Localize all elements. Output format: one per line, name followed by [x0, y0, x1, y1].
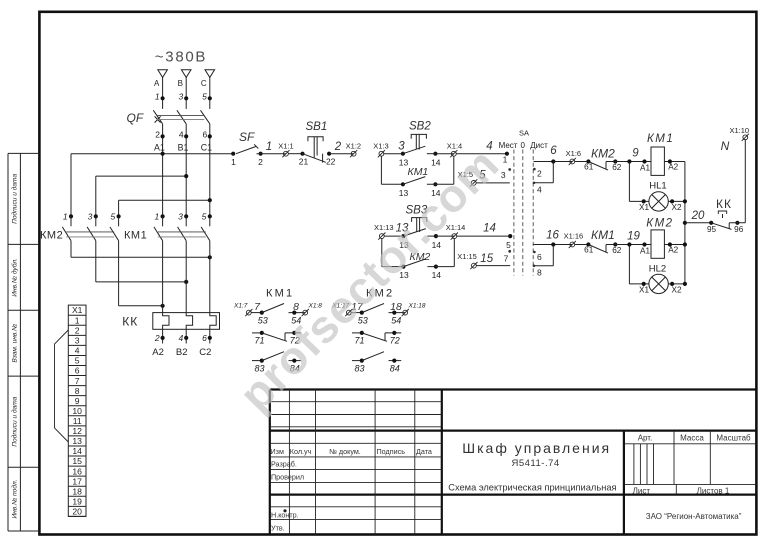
svg-text:61: 61: [584, 246, 594, 255]
svg-text:13: 13: [399, 188, 409, 198]
wire X1:16 to KM1 contact: [575, 244, 589, 246]
contactor KM1 main contacts: [124, 212, 212, 242]
pushbutton SB2 (NO): [399, 121, 441, 168]
svg-text:X2: X2: [671, 203, 681, 212]
terminal flag X1:2: [346, 142, 361, 158]
node wire 4: [486, 141, 492, 153]
wire SB2 to X1:4: [435, 153, 453, 155]
svg-text:11: 11: [73, 416, 82, 426]
circuit breaker QF: [127, 110, 213, 216]
svg-text:Лист: Лист: [633, 487, 651, 496]
svg-text:Утв.: Утв.: [271, 524, 285, 533]
svg-text:7: 7: [75, 376, 80, 386]
title block document name: [448, 440, 616, 493]
svg-text:2: 2: [537, 169, 542, 179]
wire SB1 to X1:2: [329, 153, 354, 155]
title block right labels: [633, 434, 751, 521]
svg-text:КК: КК: [122, 314, 138, 328]
coil KM1: [640, 133, 674, 175]
svg-text:C2: C2: [199, 347, 211, 358]
svg-text:4: 4: [486, 141, 492, 153]
wire X1:3 to SB2: [384, 153, 403, 155]
svg-text:SB2: SB2: [409, 121, 431, 133]
wire phase A input: [162, 77, 164, 109]
switch SF: [231, 130, 263, 167]
svg-text:КМ1: КМ1: [124, 230, 147, 242]
svg-text:КМ2: КМ2: [591, 147, 615, 161]
wire X1:15 to SA-7: [457, 252, 510, 269]
svg-text:B: B: [178, 79, 183, 88]
svg-text:18: 18: [72, 486, 82, 496]
wire node9 to HL1: [629, 162, 649, 212]
wire rail to KK: [685, 222, 711, 224]
phase B label: [178, 79, 183, 88]
svg-text:5: 5: [202, 92, 207, 102]
svg-text:КМ2: КМ2: [646, 217, 673, 229]
svg-text:14: 14: [432, 270, 442, 280]
wire node19 to HL2: [629, 245, 649, 295]
svg-text:5: 5: [75, 356, 80, 366]
svg-text:84: 84: [390, 364, 400, 374]
svg-text:X1:2: X1:2: [346, 142, 361, 151]
svg-text:1: 1: [503, 155, 508, 165]
svg-text:1: 1: [63, 212, 68, 222]
svg-text:5: 5: [202, 212, 207, 222]
phase C input arrow: [205, 70, 215, 78]
svg-text:~380В: ~380В: [155, 49, 207, 66]
selector SA position labels: [499, 141, 549, 150]
wire KM1 coil A2 to rail: [664, 159, 685, 171]
frame margin label Взам. инв.№: [12, 324, 19, 363]
wire KM2 coil A2 to rail: [664, 242, 685, 254]
svg-text:Дист: Дист: [530, 141, 548, 150]
svg-text:A2: A2: [668, 163, 678, 172]
svg-text:Инв.№ дубл.: Инв.№ дубл.: [11, 258, 19, 297]
svg-text:Масса: Масса: [680, 434, 704, 443]
contact KM1 NC (61-62): [584, 228, 622, 255]
svg-text:1: 1: [266, 141, 272, 153]
node phase A terminal 1: [155, 92, 165, 102]
contact КМ2 53-54 (NO): [331, 301, 426, 326]
wire HL1 to rail: [668, 199, 685, 212]
svg-text:HL1: HL1: [649, 181, 666, 192]
svg-text:X1:7: X1:7: [233, 303, 248, 310]
lamp HL2: [649, 264, 669, 294]
svg-text:Дата: Дата: [416, 447, 432, 456]
wire KM2 pole5 to A: [119, 241, 165, 308]
svg-text:Масштаб: Масштаб: [716, 434, 751, 443]
svg-text:3: 3: [178, 92, 183, 102]
terminal flag X1:13: [374, 223, 394, 240]
contact KM2 NC (61-62): [584, 147, 622, 173]
wire KM2-62 to node 9: [606, 148, 651, 164]
contact KM1 holding (13-14): [381, 156, 453, 197]
svg-text:17: 17: [72, 476, 82, 486]
svg-text:6: 6: [75, 366, 80, 376]
svg-text:A: A: [154, 79, 160, 88]
contact SA 6-8 (Dist row2): [533, 230, 573, 278]
svg-text:9: 9: [632, 148, 639, 160]
svg-text:КМ1: КМ1: [408, 166, 429, 178]
svg-text:Взам. инв.№: Взам. инв.№: [12, 324, 19, 363]
svg-text:14: 14: [72, 446, 82, 456]
pushbutton SB1 (NC): [299, 121, 336, 166]
wire KM1 poles to KK: [163, 241, 210, 313]
svg-text:20: 20: [691, 210, 705, 222]
svg-text:61: 61: [584, 163, 594, 172]
svg-text:14: 14: [483, 223, 496, 235]
svg-text:72: 72: [390, 336, 400, 346]
svg-text:2: 2: [334, 141, 342, 153]
title block grid: [270, 390, 757, 535]
svg-text:SF: SF: [239, 130, 255, 144]
svg-text:ЗАО “Регион-Автоматика”: ЗАО “Регион-Автоматика”: [646, 512, 742, 521]
svg-text:X1: X1: [72, 305, 83, 315]
terminal block X1: [68, 305, 86, 516]
svg-text:Мест: Мест: [499, 141, 518, 150]
wire KM2 pole feeders: [71, 154, 119, 217]
svg-text:1: 1: [75, 315, 80, 325]
wire tap phase C: [119, 198, 212, 202]
svg-text:5: 5: [110, 212, 115, 222]
contact КМ1 53-54 (NO): [233, 301, 322, 326]
frame margin label Подписи и дата: [11, 396, 19, 446]
svg-text:8: 8: [75, 386, 80, 396]
wire KM1-62 to node 19: [606, 230, 651, 246]
contact KK thermal (95-96): [707, 197, 744, 234]
svg-text:X1:16: X1:16: [564, 232, 584, 241]
terminal block X1 cable bracket: [55, 330, 69, 442]
terminal flag X1:10: [729, 126, 749, 141]
frame margin label Инв.№ дубл.: [11, 258, 19, 297]
svg-text:X1:3: X1:3: [373, 142, 388, 151]
frame margin label Инв.№ подл.: [11, 479, 19, 518]
net N label: [721, 139, 730, 153]
svg-text:Арт.: Арт.: [638, 434, 653, 443]
svg-text:7: 7: [504, 254, 509, 264]
svg-text:2: 2: [75, 325, 80, 335]
wire phase C input: [209, 77, 211, 109]
contact KM2 holding (13-14): [382, 239, 455, 280]
svg-text:HL2: HL2: [649, 264, 666, 275]
wire SF to X1:1: [257, 153, 286, 155]
svg-text:0: 0: [520, 141, 525, 150]
svg-text:1: 1: [231, 157, 236, 167]
svg-text:3: 3: [75, 336, 80, 346]
svg-text:C1: C1: [201, 143, 212, 153]
phase C label: [201, 79, 207, 88]
svg-text:КМ1: КМ1: [591, 228, 615, 242]
svg-text:18: 18: [390, 301, 402, 313]
contact КМ1 83-84 (NO): [252, 352, 301, 374]
svg-text:КМ1: КМ1: [647, 133, 674, 145]
svg-text:SA: SA: [519, 128, 529, 137]
svg-text:КМ2: КМ2: [40, 230, 63, 242]
title block stray mark: [283, 509, 286, 512]
svg-text:Я5411-.74: Я5411-.74: [512, 458, 560, 469]
svg-text:15: 15: [480, 253, 493, 265]
svg-text:54: 54: [391, 315, 401, 325]
wire SB3 to X1:14: [436, 235, 454, 237]
svg-text:A1: A1: [154, 143, 165, 153]
svg-text:Подписи и дата: Подписи и дата: [11, 174, 19, 224]
svg-text:КК: КК: [716, 197, 732, 211]
wire HL2 to rail: [668, 282, 685, 295]
svg-text:X2: X2: [671, 285, 681, 294]
frame margin label Подписи и дата: [11, 174, 19, 224]
svg-text:Разраб.: Разраб.: [271, 460, 297, 469]
wire tap phase B: [96, 174, 188, 178]
selector SA label: [519, 128, 529, 137]
node wire 1: [266, 141, 272, 153]
svg-text:X1:10: X1:10: [729, 126, 749, 135]
svg-text:B1: B1: [178, 143, 189, 153]
svg-text:14: 14: [431, 157, 441, 167]
terminal flag X1:6: [566, 149, 581, 165]
svg-text:A2: A2: [152, 347, 164, 358]
lamp HL1: [649, 181, 668, 211]
thermal relay KK heaters: [122, 313, 219, 358]
phase B input arrow: [181, 70, 191, 78]
svg-text:10: 10: [72, 406, 82, 416]
svg-text:2: 2: [258, 157, 263, 167]
svg-text:62: 62: [612, 246, 622, 255]
node wire 13: [396, 223, 409, 235]
node wire 3: [398, 141, 405, 153]
wire X1:5 to SA-3: [458, 169, 510, 186]
title block row labels: [271, 460, 304, 533]
svg-text:9: 9: [75, 396, 80, 406]
svg-text:Шкаф управления: Шкаф управления: [462, 440, 611, 456]
selector SA position lines: [514, 150, 533, 276]
svg-text:A2: A2: [668, 246, 678, 255]
svg-text:Кол.уч: Кол.уч: [290, 447, 312, 456]
phase A input arrow: [158, 70, 168, 78]
svg-text:B2: B2: [176, 347, 188, 358]
contact SA 5-7 (Mest row2): [504, 234, 513, 264]
terminal flag X1:14: [446, 223, 466, 240]
svg-text:Проверил: Проверил: [271, 472, 304, 481]
svg-text:A1: A1: [640, 163, 650, 172]
svg-text:53: 53: [258, 315, 268, 325]
svg-text:6: 6: [202, 333, 207, 343]
svg-text:1: 1: [155, 92, 160, 102]
svg-text:QF: QF: [127, 111, 144, 125]
svg-text:8: 8: [293, 301, 299, 313]
terminal flag X1:3: [373, 142, 388, 158]
svg-text:N: N: [721, 139, 730, 153]
wire KM2 pole3 to B: [96, 241, 188, 284]
svg-text:95: 95: [707, 225, 717, 234]
svg-text:A1: A1: [640, 246, 650, 255]
wire X1:6 to KM2 contact: [575, 161, 589, 163]
coil KM2: [640, 217, 674, 258]
wire phase B input: [185, 77, 187, 109]
svg-text:X1: X1: [639, 285, 649, 294]
svg-text:19: 19: [72, 496, 82, 506]
svg-text:4: 4: [179, 129, 184, 139]
contact SA 1-3 (Mest row1): [501, 152, 511, 181]
svg-text:Схема электрическая принципи: Схема электрическая принципиальная: [448, 483, 616, 493]
wire KM2 pole1 to C: [71, 241, 212, 260]
wire tap phase A / control: [71, 152, 233, 156]
terminal flag X1:4: [447, 142, 462, 158]
svg-text:X1:6: X1:6: [566, 149, 581, 158]
node wire 2: [334, 141, 342, 153]
svg-text:20: 20: [72, 507, 82, 517]
svg-text:SB1: SB1: [306, 121, 328, 133]
svg-text:6: 6: [550, 145, 557, 157]
svg-text:Подписи и дата: Подписи и дата: [11, 396, 19, 446]
svg-text:4: 4: [178, 333, 183, 343]
svg-text:15: 15: [72, 456, 82, 466]
svg-text:12: 12: [72, 426, 82, 436]
svg-text:8: 8: [537, 268, 542, 278]
svg-text:2: 2: [155, 129, 160, 139]
svg-text:22: 22: [326, 156, 336, 166]
svg-text:X1: X1: [639, 203, 649, 212]
svg-text:16: 16: [546, 230, 559, 242]
svg-text:19: 19: [627, 230, 640, 242]
svg-text:71: 71: [254, 336, 264, 346]
svg-text:6: 6: [202, 129, 207, 139]
svg-text:C: C: [201, 79, 207, 88]
contactor КМ2 aux label: [366, 288, 394, 300]
svg-text:16: 16: [72, 466, 82, 476]
svg-text:№ докум.: № докум.: [329, 447, 361, 456]
wire X1:1 to SB1: [288, 153, 302, 155]
svg-text:КМ1: КМ1: [266, 288, 294, 300]
svg-text:2: 2: [154, 333, 160, 343]
contactor KM2 main contacts: [40, 212, 121, 242]
svg-text:X1:1: X1:1: [278, 142, 293, 151]
svg-text:13: 13: [72, 436, 82, 446]
wire X1:13 to SB3: [384, 235, 403, 237]
contact КМ2 71-72 (NC): [352, 331, 401, 346]
terminal flag X1:1: [278, 142, 293, 158]
svg-text:1: 1: [154, 212, 159, 222]
node phase B terminal 3: [178, 92, 188, 102]
svg-text:3: 3: [88, 212, 93, 222]
watermark profsector.com: [229, 138, 509, 421]
svg-text:3: 3: [178, 212, 183, 222]
contact SA 2-4 (Dist row1): [533, 145, 573, 194]
svg-text:Подпись: Подпись: [377, 447, 406, 456]
wire X1:4 to SA: [456, 153, 507, 155]
svg-text:Изм: Изм: [271, 447, 284, 456]
svg-text:4: 4: [537, 184, 542, 194]
net ~380V supply label: [155, 49, 207, 66]
svg-text:5: 5: [506, 240, 511, 250]
wire common rail: [683, 162, 687, 287]
wire KK to X1:10: [729, 140, 745, 223]
svg-text:3: 3: [398, 141, 405, 153]
svg-text:Листов 1: Листов 1: [697, 487, 730, 496]
svg-text:X1:15: X1:15: [457, 252, 477, 261]
phase A label: [154, 79, 160, 88]
svg-text:6: 6: [537, 252, 542, 262]
node wire 14: [483, 223, 496, 235]
svg-text:Инв.№ подл.: Инв.№ подл.: [11, 479, 19, 518]
title block header labels: [271, 447, 432, 456]
frame left margin boxes: [8, 153, 38, 531]
svg-text:96: 96: [734, 225, 744, 234]
svg-text:4: 4: [75, 346, 80, 356]
node phase C terminal 5: [202, 92, 212, 102]
node wire 20: [691, 210, 705, 222]
wire X1:14 to SA: [457, 235, 511, 237]
svg-text:21: 21: [299, 156, 309, 166]
contact КМ1 71-72 (NC): [252, 331, 301, 346]
pushbutton SB3 (NO): [399, 205, 441, 250]
svg-text:83: 83: [354, 364, 364, 374]
svg-text:62: 62: [612, 163, 622, 172]
terminal flag X1:16: [564, 232, 584, 249]
svg-text:X1:18: X1:18: [408, 303, 426, 310]
contact КМ2 83-84 (NO): [352, 352, 401, 374]
contactor КМ1 aux label: [266, 288, 294, 300]
svg-text:71: 71: [354, 336, 364, 346]
